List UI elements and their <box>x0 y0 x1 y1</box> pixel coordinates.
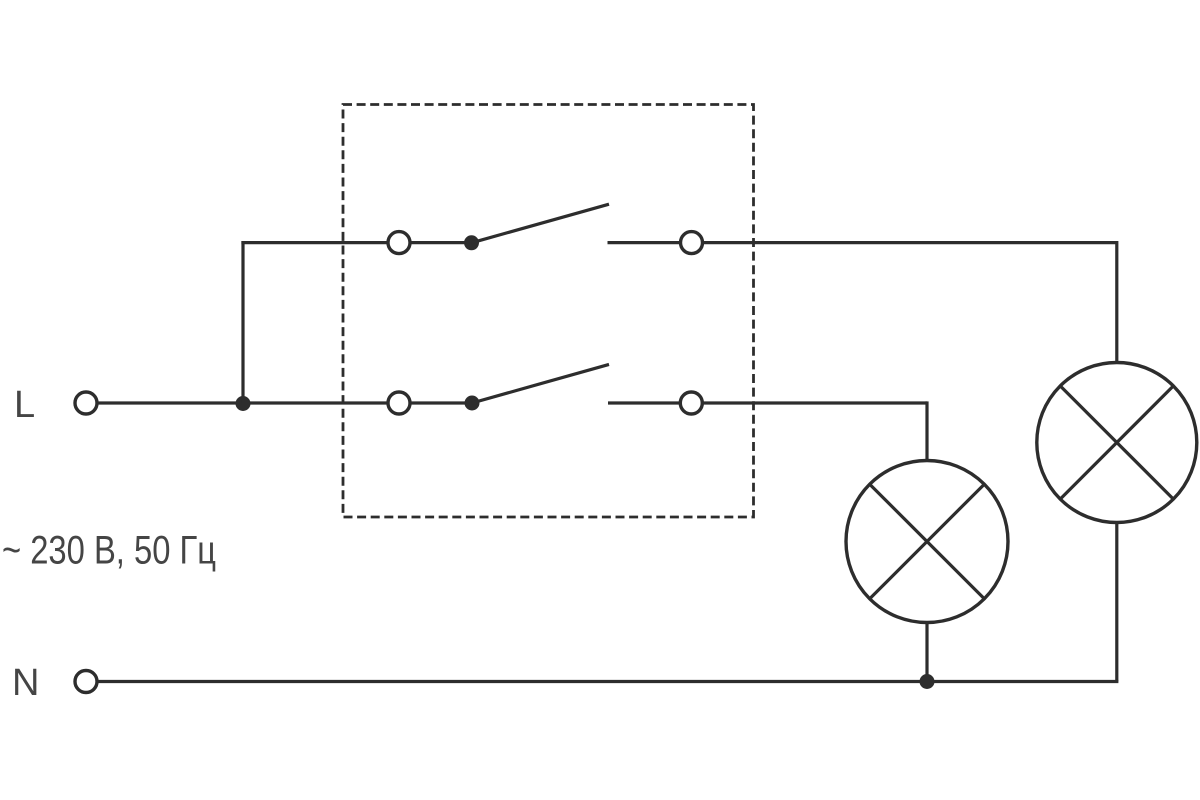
wire L to bottom switch pivot <box>98 401 473 404</box>
switch pole 1 pivot <box>464 235 479 250</box>
node N terminal <box>75 671 97 693</box>
switch pole 2 pivot <box>465 396 480 411</box>
wire switch pole 2 output <box>608 401 927 404</box>
node L terminal <box>75 392 97 414</box>
junction L branch <box>236 396 251 411</box>
junction N at lamp EL2 <box>920 674 935 689</box>
wire switch pole 1 output <box>608 241 1117 244</box>
switch pole 1 right terminal <box>681 232 703 254</box>
lamp EL1 <box>1037 363 1197 523</box>
svg-text:N: N <box>12 662 39 704</box>
wire lamp EL1 to N <box>1115 523 1118 682</box>
switch pole 2 right terminal <box>680 392 702 414</box>
wire down to lamp EL1 <box>1115 241 1118 364</box>
wire branch up <box>241 241 244 403</box>
wire branch to top switch pivot <box>241 241 471 244</box>
svg-text:L: L <box>14 384 35 426</box>
wire down to lamp EL2 <box>925 401 928 461</box>
svg-text:~ 230 В, 50 Гц: ~ 230 В, 50 Гц <box>2 529 216 573</box>
switch pole 2 left terminal <box>388 392 410 414</box>
switch pole 1 left terminal <box>388 232 410 254</box>
wire N bus <box>98 680 1119 683</box>
switch pole 1 blade <box>472 204 610 243</box>
wire lamp EL2 to N <box>925 623 928 682</box>
switch pole 2 blade <box>472 364 609 403</box>
switch enclosure dashed box <box>343 105 754 518</box>
lamp EL2 <box>846 461 1008 623</box>
